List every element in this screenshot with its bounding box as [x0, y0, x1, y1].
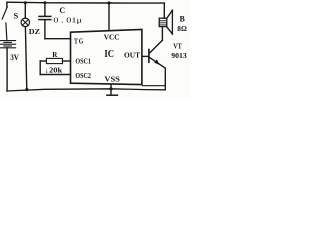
svg-text:8Ω: 8Ω — [177, 24, 187, 33]
svg-text:OUT: OUT — [124, 51, 140, 60]
svg-text:0 . 01μ: 0 . 01μ — [53, 16, 82, 25]
svg-text:OSC1: OSC1 — [75, 57, 91, 66]
svg-text:VT: VT — [173, 43, 182, 51]
svg-text:OSC2: OSC2 — [75, 71, 91, 80]
svg-text:DZ: DZ — [29, 27, 40, 36]
svg-text:VSS: VSS — [104, 74, 120, 83]
svg-text:IC: IC — [104, 49, 114, 60]
svg-text:VCC: VCC — [104, 32, 120, 41]
svg-text:B: B — [180, 15, 186, 24]
svg-text:S: S — [14, 11, 19, 21]
svg-text:9013: 9013 — [171, 51, 187, 60]
svg-text:3V: 3V — [10, 53, 19, 62]
svg-text:↓20k: ↓20k — [45, 65, 64, 74]
svg-text:TG: TG — [74, 37, 84, 46]
svg-text:C: C — [59, 6, 65, 15]
